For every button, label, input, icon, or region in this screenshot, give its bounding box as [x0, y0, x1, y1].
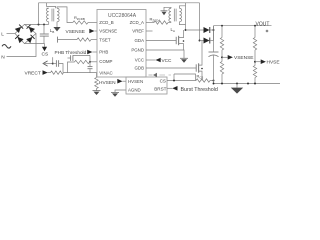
bridge diode D3 [15, 35, 23, 43]
svg-text:VRECT: VRECT [25, 70, 41, 76]
wire AGND pin [115, 90, 126, 92]
svg-text:L: L [1, 31, 4, 37]
wire GDB gate [146, 67, 196, 69]
transistor Q_B [195, 64, 197, 71]
wire L_A drop [185, 3, 187, 30]
svg-text:VSENSE: VSENSE [99, 29, 117, 34]
wire Q_A drain [179, 30, 184, 38]
ground HVSEN divider [93, 90, 101, 92]
net arrow HVSEN [117, 79, 122, 84]
ac source [2, 44, 11, 48]
svg-text:ZCD_B: ZCD_B [99, 20, 113, 25]
wire L_A top [179, 6, 185, 8]
resistor HVSEN lower [95, 78, 99, 89]
net arrow Burst [172, 86, 177, 91]
wire Q_B drain [199, 41, 202, 66]
junction gnd cap [213, 83, 215, 85]
capacitor COMP parallel-branch [70, 55, 72, 61]
svg-text:PGND: PGND [131, 48, 144, 53]
wire HVSEN resistor bottom [96, 89, 98, 91]
resistor divider HVSEN [254, 26, 256, 38]
resistor R_ZCDA [154, 21, 168, 24]
inductor L_A primary [179, 8, 181, 22]
wire source return link [174, 74, 196, 81]
wire N input [7, 34, 37, 57]
svg-text:VINAC: VINAC [99, 70, 112, 75]
capacitor COMP parallel [89, 62, 91, 67]
wire CS pin [167, 80, 196, 82]
wire rail jog into L_B [47, 3, 56, 8]
junction CS [173, 80, 175, 82]
transistor Q_A [175, 37, 177, 44]
resistor R_ZCDB [73, 21, 88, 24]
wire to CS net [44, 44, 46, 47]
wire L_B top stub [47, 7, 49, 9]
svg-text:VOUT: VOUT [256, 21, 270, 27]
wire L_A bottom [179, 22, 185, 25]
wire ground stem [236, 84, 238, 88]
bridge diode D4 [26, 35, 34, 43]
net arrow PHB [87, 50, 92, 55]
svg-text:CS: CS [42, 51, 49, 57]
core L_A [173, 9, 175, 22]
wire diode A out [211, 29, 214, 31]
wire branch [43, 63, 53, 65]
cap bar TSET [57, 37, 59, 43]
wire bridge- rail [25, 43, 45, 45]
capacitor C_OUT [213, 26, 215, 52]
wire zcd A top to ground [164, 7, 171, 11]
open arrow left branch [43, 61, 48, 66]
junction shunt [213, 80, 215, 82]
wire to VSENSE pin [95, 30, 98, 32]
wire VRECT [48, 72, 51, 74]
net arrow VCC [156, 58, 161, 63]
wire GDA gate [146, 40, 176, 42]
wire branch up stub [52, 57, 54, 63]
resistor R_CS shunt [196, 79, 210, 82]
svg-text:GDA: GDA [134, 38, 144, 43]
wire to diode A [186, 29, 204, 31]
wire top rail drop to phase B [199, 3, 201, 41]
wire L input [7, 33, 16, 35]
junction divider 2 top [254, 25, 256, 27]
wire L_B winding to arrow [56, 22, 58, 27]
junction gnd div2 [254, 83, 256, 85]
wire to TSET pin [91, 39, 97, 41]
wire diode merge [213, 26, 215, 41]
wire zcd B to resistor [57, 7, 73, 23]
junction gnd extra [247, 83, 249, 85]
wire to VINAC pin [64, 72, 98, 74]
junction phase B switch node [199, 40, 201, 42]
junction phase A switch node [185, 29, 187, 31]
resistor VSENSE lower [220, 62, 223, 75]
svg-text:HVSEN: HVSEN [99, 80, 116, 86]
wire shunt to rail [210, 80, 214, 82]
resistor HVSEN upper [253, 38, 256, 51]
wire to diode B [200, 40, 204, 42]
wire bridge+ to L_B [25, 24, 49, 26]
wire HVSEN tap [255, 61, 261, 63]
junction VSENSE tap [221, 56, 223, 58]
wire TSET [58, 39, 77, 41]
inductor L_A zcd winding [169, 8, 171, 22]
down arrow under L_B [53, 27, 60, 31]
svg-text:CS: CS [160, 78, 166, 83]
wire VOUT rail [214, 25, 272, 27]
op-amp U1 UCC28064A [97, 10, 146, 78]
junction diode outputs [213, 29, 215, 31]
net arrow VSENSE out [228, 55, 233, 60]
ground main [231, 88, 243, 94]
junction COMP [89, 61, 91, 63]
wire riser to top rail [38, 3, 40, 25]
wire Q_B source [199, 71, 202, 80]
net arrow HVSEN out [261, 59, 266, 64]
wire faint stub3 [169, 74, 172, 76]
core L_B [51, 9, 53, 22]
svg-text:VCC: VCC [135, 58, 144, 63]
wire HVSEN resistor top [96, 73, 98, 78]
ground AGND [111, 91, 119, 93]
svg-text:TSET: TSET [99, 37, 111, 42]
wire faint stub [149, 74, 153, 76]
junction Cin top [43, 24, 45, 26]
svg-text:Burst Threshold: Burst Threshold [181, 87, 218, 93]
ground PGND [180, 57, 188, 59]
inductor L_B primary [47, 8, 49, 22]
svg-text:HVSEN: HVSEN [128, 79, 143, 84]
resistor divider VSENSE [221, 26, 223, 38]
svg-text:UCC28064A: UCC28064A [108, 13, 137, 19]
svg-text:PHB Threshold: PHB Threshold [55, 50, 87, 55]
wire VSENSE tap [222, 56, 228, 58]
junction Q_B body [201, 68, 203, 70]
wire zcd A bottom [170, 21, 172, 24]
junction Q_A body [183, 40, 185, 42]
junction bridge+ rail [38, 24, 40, 26]
wire BRST pin [167, 87, 172, 89]
wire CS riser [173, 74, 175, 81]
svg-text:PHB: PHB [99, 50, 108, 55]
wire to HVSEN pin [123, 80, 127, 82]
wire diode B out [211, 40, 214, 42]
wire to ZCD_B pin [88, 22, 97, 24]
diode D_B [204, 38, 210, 44]
svg-text:BRST: BRST [154, 86, 166, 91]
net arrow faint [153, 73, 157, 77]
junction divider 1 top [221, 25, 223, 27]
wire COMP pin [90, 61, 97, 63]
wire ZCD_A pin [146, 22, 154, 24]
wire top rail [39, 2, 200, 4]
junction gnd div1 [221, 83, 223, 85]
wire PGND pin [146, 50, 184, 58]
net arrow VRECT [43, 70, 48, 75]
ground zcd A [161, 10, 168, 12]
wire Q_A source [179, 44, 184, 50]
resistor VINAC filter [51, 71, 64, 74]
bridge rectifier outline [15, 24, 36, 43]
plus mark [266, 30, 269, 32]
svg-text:COMP: COMP [99, 59, 112, 64]
wire to PHB pin [92, 51, 97, 53]
diode D_A [204, 27, 210, 33]
wire VCC pin [146, 59, 156, 61]
svg-text:HVSEN: HVSEN [267, 60, 281, 66]
bridge diode D2 [27, 25, 35, 33]
junction gnd stem [236, 83, 238, 85]
svg-text:VCC: VCC [162, 58, 173, 63]
junction HVSEN tap [254, 61, 256, 63]
bridge diode D1 [15, 25, 23, 33]
svg-text:GDB: GDB [134, 66, 144, 71]
resistor COMP [75, 60, 90, 63]
wire VREF stub [146, 30, 153, 32]
resistor VSENSE upper [220, 38, 223, 51]
svg-text:AGND: AGND [128, 88, 141, 93]
svg-text:VSENSE: VSENSE [234, 55, 253, 61]
capacitor branch [55, 60, 57, 67]
wire faint stub2 [160, 74, 166, 76]
resistor HVSEN lower [253, 66, 256, 78]
wire L_B bottom to bridge+ [48, 22, 50, 25]
svg-text:VREF: VREF [132, 29, 144, 34]
resistor R_TSET [77, 38, 91, 41]
net arrow VSENSE [89, 29, 94, 34]
svg-text:VSENSE: VSENSE [66, 29, 85, 35]
svg-text:ZCD_A: ZCD_A [130, 20, 144, 25]
net arrow CS [42, 47, 47, 51]
wire COMP left down [68, 62, 75, 73]
wire ground rail [214, 83, 281, 85]
svg-text:N: N [1, 55, 5, 61]
wire to L_A zcd [168, 22, 171, 24]
junction branch [52, 63, 54, 65]
inductor L_B zcd winding [57, 8, 59, 22]
capacitor Cin [43, 25, 45, 34]
